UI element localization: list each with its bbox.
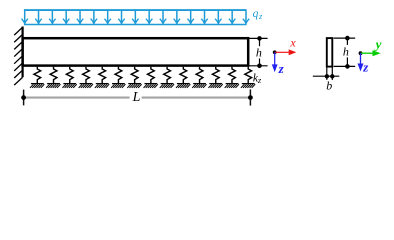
svg-text:z: z bbox=[362, 60, 369, 75]
svg-text:x: x bbox=[289, 35, 296, 49]
svg-text:q: q bbox=[253, 8, 259, 20]
svg-text:y: y bbox=[374, 36, 382, 51]
svg-text:z: z bbox=[257, 75, 262, 85]
svg-text:h: h bbox=[256, 45, 262, 59]
svg-text:h: h bbox=[343, 44, 349, 58]
svg-text:L: L bbox=[132, 90, 141, 105]
svg-text:z: z bbox=[258, 11, 263, 21]
svg-text:b: b bbox=[326, 79, 332, 93]
svg-text:z: z bbox=[278, 61, 285, 76]
